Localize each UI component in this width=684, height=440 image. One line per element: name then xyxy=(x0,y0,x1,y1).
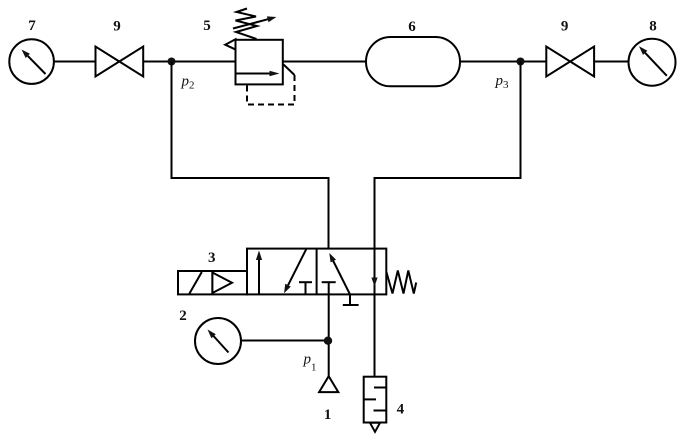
regulator U5 body xyxy=(236,40,283,85)
solenoid pilot triangle xyxy=(212,273,232,294)
left position: up arrow xyxy=(256,251,262,295)
muffler dash left xyxy=(364,398,376,400)
gauge 8 xyxy=(629,39,676,86)
valve center divider xyxy=(316,249,318,295)
valve 9 right (shutoff valve) xyxy=(546,47,594,77)
gauge 2 xyxy=(195,318,241,364)
svg-text:3: 3 xyxy=(208,250,216,266)
node p1 xyxy=(324,337,332,345)
muffler outlet triangle xyxy=(370,423,380,432)
svg-text:1: 1 xyxy=(324,407,332,423)
svg-text:9: 9 xyxy=(113,19,121,35)
valve 9 left (shutoff valve) xyxy=(96,47,144,77)
wire p1 up into valve xyxy=(328,282,330,376)
regulator pilot line (dashed) xyxy=(247,65,295,105)
muffler dash right xyxy=(374,387,386,389)
wire valve9L to regulator xyxy=(143,61,235,63)
solenoid slash xyxy=(189,272,202,294)
wire accumulator to valve9R xyxy=(460,61,546,63)
supply triangle 1 xyxy=(319,376,338,392)
wire gauge7 to valve9L xyxy=(54,61,96,63)
svg-text:p2: p2 xyxy=(181,74,195,92)
directional valve body xyxy=(247,249,386,295)
right position: down arrow on through line xyxy=(371,278,377,287)
regulator adjust arrow xyxy=(233,16,276,28)
muffler 4 body xyxy=(364,377,387,423)
wire p2 down-jog to valve port A xyxy=(172,62,329,249)
regulator spring xyxy=(236,9,258,40)
right position: blocked supply T xyxy=(322,281,336,283)
wire gauge 2 to node p1 xyxy=(241,340,329,342)
svg-text:6: 6 xyxy=(408,19,416,35)
wire regulator to accumulator xyxy=(283,61,366,63)
accumulator 6 xyxy=(366,37,460,86)
svg-text:p3: p3 xyxy=(495,73,510,91)
left position: blocked port T xyxy=(299,282,312,294)
wire p3 down-jog through valve to muffler 4 xyxy=(375,62,521,377)
svg-text:7: 7 xyxy=(28,18,36,34)
svg-text:8: 8 xyxy=(649,19,657,35)
solenoid 3 box xyxy=(178,271,247,294)
regulator internal flow arrow xyxy=(236,71,280,77)
exhaust vent below valve xyxy=(343,294,359,305)
muffler dash right 2 xyxy=(374,410,387,412)
solenoid divider xyxy=(211,271,213,294)
svg-text:4: 4 xyxy=(397,402,405,418)
right position: diagonal arrow to exhaust xyxy=(329,253,350,294)
svg-text:9: 9 xyxy=(561,19,569,35)
regulator vent triangle xyxy=(225,39,235,49)
left position: diagonal arrow xyxy=(284,249,306,293)
node p3 xyxy=(517,58,525,66)
svg-text:2: 2 xyxy=(179,308,187,324)
return spring xyxy=(386,271,416,294)
node p2 xyxy=(168,58,176,66)
svg-text:p1: p1 xyxy=(303,352,317,374)
wire valve9R to gauge 8 xyxy=(594,61,628,63)
svg-text:5: 5 xyxy=(203,18,211,34)
gauge 7 xyxy=(9,39,54,84)
